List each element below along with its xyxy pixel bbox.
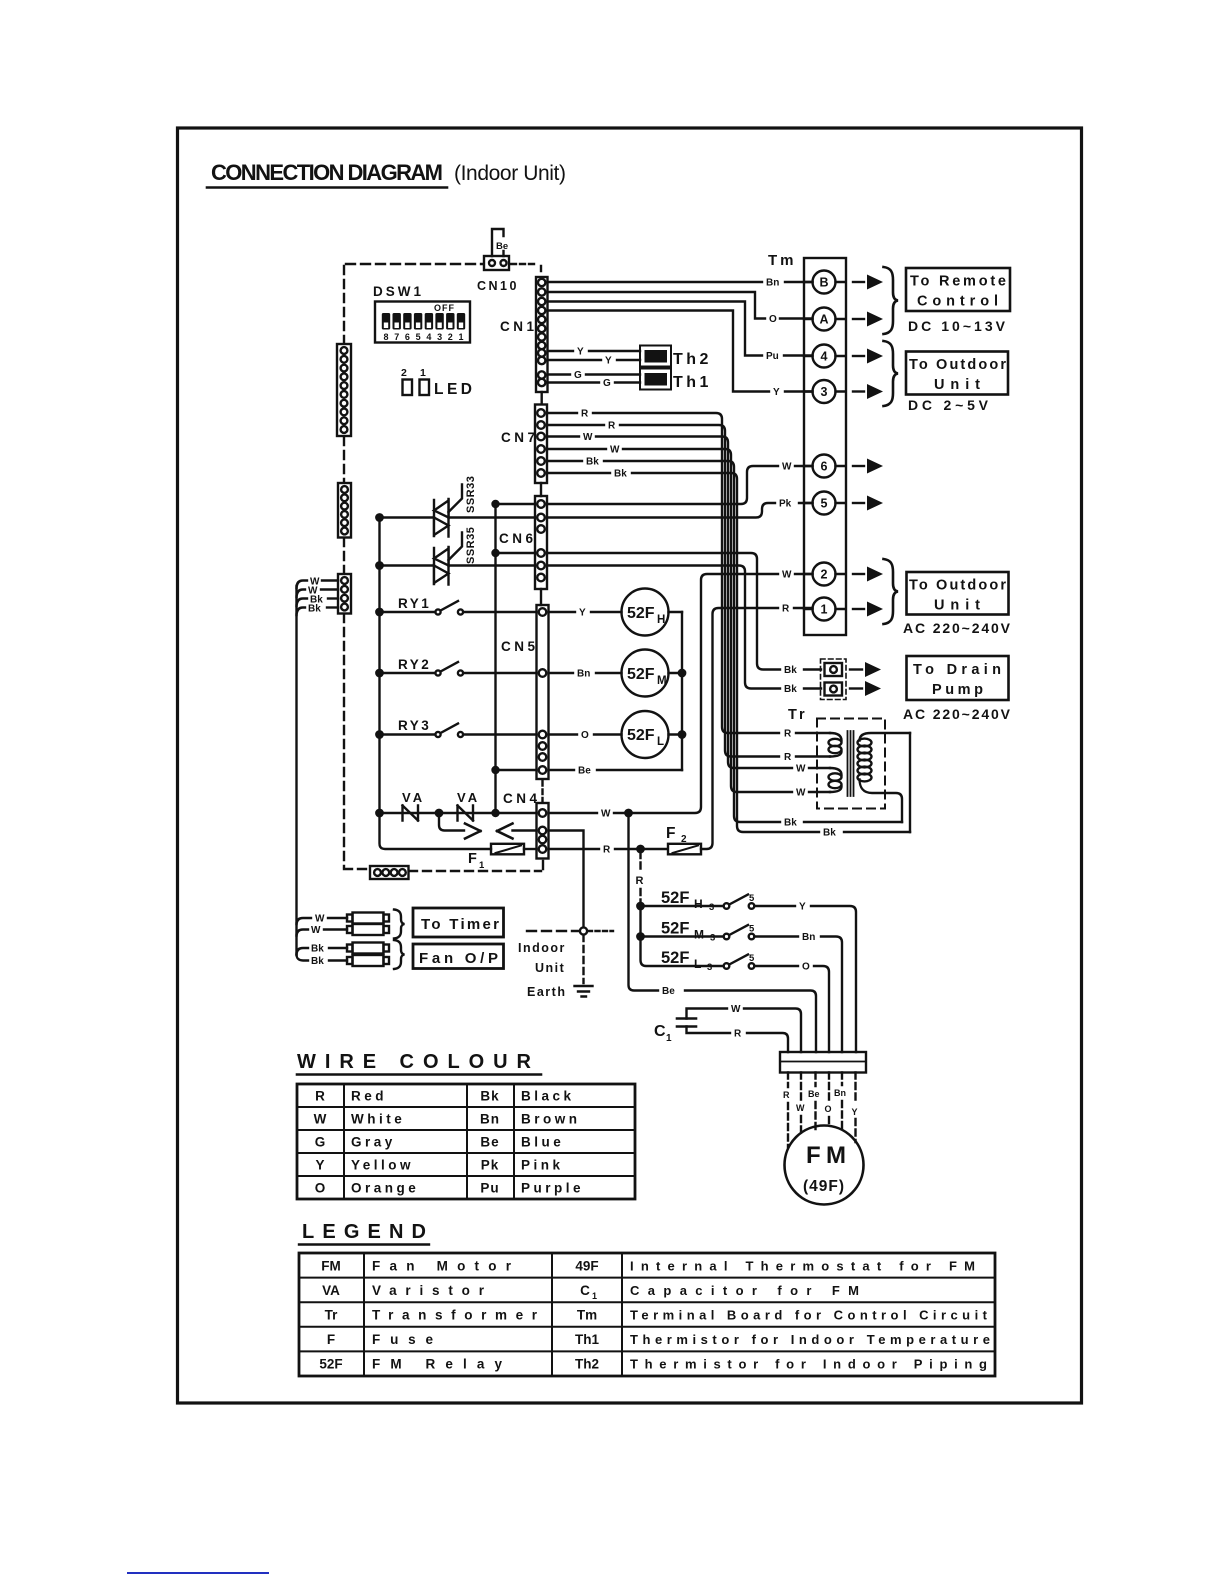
connector left 4pin: [338, 574, 351, 614]
svg-text:CN10: CN10: [477, 279, 519, 293]
motor lead Bn: [841, 1073, 843, 1131]
connector bottom 4pin horizontal: [370, 866, 409, 879]
svg-text:52F: 52F: [627, 605, 655, 622]
wire harness W to left 4pin: [297, 577, 339, 589]
svg-text:To Timer: To Timer: [421, 916, 499, 933]
svg-text:W: W: [782, 570, 792, 581]
varistor VA 2: [457, 790, 480, 821]
svg-text:O: O: [769, 314, 777, 325]
wire CN4 to earth: [549, 831, 584, 928]
wire harness W2 to left 4pin: [297, 586, 339, 598]
svg-text:52F: 52F: [661, 949, 689, 967]
svg-text:M: M: [657, 675, 667, 687]
svg-text:R: R: [783, 1090, 790, 1100]
svg-text:Tm: Tm: [577, 1308, 597, 1323]
svg-text:Y: Y: [579, 608, 586, 619]
svg-text:Fuse: Fuse: [372, 1332, 433, 1347]
triac SSR35: [380, 527, 478, 585]
svg-text:Bk: Bk: [311, 944, 324, 955]
wire Y to Th2: [548, 347, 641, 358]
brace timer pair: [394, 910, 405, 939]
svg-text:8: 8: [383, 332, 388, 342]
wire Bn CN1 to Tm B: [548, 278, 813, 289]
svg-text:F: F: [666, 825, 675, 842]
WIRE COLOUR title: [297, 1051, 541, 1075]
harness vertical bus: [295, 586, 297, 955]
wire Bk CN7 to transformer secondary bottom: [547, 457, 902, 829]
thermistor Th2: [640, 346, 712, 369]
svg-text:R: R: [784, 729, 792, 740]
arrows to external: [853, 275, 883, 290]
svg-text:Th1: Th1: [673, 374, 712, 391]
motor lead Y: [854, 1073, 856, 1143]
svg-text:OFF: OFF: [434, 303, 455, 313]
wire O CN1 to Tm A: [548, 292, 813, 325]
wire G to Th1: [548, 370, 641, 381]
relay contact RY2: [380, 657, 537, 676]
label box To Drain Pump: [907, 656, 1009, 700]
svg-text:2: 2: [821, 567, 828, 581]
svg-text:Thermistor for Indoor Piping: Thermistor for Indoor Piping: [630, 1357, 987, 1372]
svg-text:Bk: Bk: [311, 956, 324, 967]
PCB dashed outline top: [346, 263, 483, 265]
svg-text:Tr: Tr: [325, 1308, 339, 1323]
connector CN10: [477, 256, 519, 293]
svg-text:AC 220~240V: AC 220~240V: [903, 706, 1011, 722]
svg-text:To Outdoor: To Outdoor: [909, 357, 1006, 373]
svg-text:W: W: [731, 1004, 741, 1015]
ground symbol: [575, 986, 593, 997]
connector CN6: [499, 496, 547, 605]
Tr primary coil 2: [829, 768, 842, 792]
svg-text:Black: Black: [521, 1089, 575, 1104]
svg-text:Pink: Pink: [521, 1158, 564, 1173]
svg-text:Transformer: Transformer: [372, 1308, 538, 1323]
svg-text:Bk: Bk: [784, 684, 797, 695]
wire Pu CN1 to Tm 4: [548, 302, 813, 363]
fan motor FM (49F): [785, 1126, 864, 1205]
svg-text:7: 7: [394, 332, 399, 342]
wire W down to Be: [629, 813, 817, 1052]
wire Bk2 CN6 to drain pump 2: [449, 566, 822, 696]
wire 52F right bus: [681, 612, 683, 770]
svg-text:WIRE COLOUR: WIRE COLOUR: [297, 1051, 532, 1073]
svg-text:W: W: [583, 432, 593, 443]
svg-text:5: 5: [821, 496, 828, 510]
svg-text:DC 2~5V: DC 2~5V: [908, 397, 989, 413]
svg-text:1: 1: [420, 367, 426, 379]
svg-text:4: 4: [426, 332, 431, 342]
relay coil 52FM: [622, 650, 686, 697]
wire harness Bk to left 4pin: [297, 595, 339, 607]
svg-text:Be: Be: [480, 1135, 499, 1150]
capacitor C1: [654, 1004, 801, 1052]
wire R2 CN7 to transformer primary: [547, 421, 830, 764]
svg-text:Internal Thermostat for FM: Internal Thermostat for FM: [630, 1258, 975, 1273]
svg-text:L: L: [657, 736, 664, 748]
triac SSR33: [380, 476, 536, 537]
svg-text:3: 3: [821, 385, 828, 399]
varistor VA 1: [402, 790, 425, 821]
svg-text:Y: Y: [852, 1107, 858, 1117]
svg-text:G: G: [574, 370, 582, 381]
svg-text:Control: Control: [917, 294, 998, 310]
timer plug W: [297, 913, 390, 925]
svg-text:L: L: [694, 957, 701, 971]
svg-text:Th2: Th2: [673, 351, 712, 368]
motor lead R: [787, 1073, 789, 1148]
svg-text:Bn: Bn: [766, 278, 779, 289]
relay coil 52FH: [622, 589, 683, 636]
fan plug Bk: [297, 943, 390, 955]
svg-text:DSW1: DSW1: [373, 284, 424, 299]
wire Y2 to Th2: [548, 356, 641, 367]
fan plug Bk2: [297, 955, 390, 967]
svg-text:49F: 49F: [575, 1258, 598, 1273]
svg-text:2: 2: [401, 367, 407, 379]
svg-text:C: C: [580, 1283, 590, 1298]
svg-text:Bn: Bn: [802, 932, 815, 943]
svg-text:Bk: Bk: [480, 1089, 499, 1104]
connector left 10pin: [337, 344, 351, 436]
wire Bk2 CN7 to transformer secondary top: [547, 469, 910, 839]
wire F2 to Tm 1: [701, 604, 813, 850]
svg-text:H: H: [694, 897, 703, 911]
svg-text:W: W: [314, 1112, 327, 1127]
svg-text:Red: Red: [351, 1089, 387, 1104]
svg-text:2: 2: [681, 834, 687, 845]
svg-text:Be: Be: [662, 986, 675, 997]
wire R CN4 to F2: [549, 845, 668, 856]
svg-text:52F: 52F: [661, 889, 689, 907]
brace remote control pair: [884, 267, 899, 334]
svg-text:Gray: Gray: [351, 1135, 396, 1150]
svg-text:CN1: CN1: [500, 319, 538, 334]
svg-text:To Drain: To Drain: [913, 662, 1001, 678]
svg-text:5: 5: [416, 332, 421, 342]
svg-text:Purple: Purple: [521, 1181, 584, 1196]
svg-text:R: R: [603, 845, 611, 856]
svg-text:Pk: Pk: [481, 1158, 500, 1173]
svg-text:R: R: [315, 1089, 325, 1104]
svg-text:Orange: Orange: [351, 1181, 419, 1196]
thermistor Th1: [640, 369, 712, 392]
motor lead O: [828, 1073, 830, 1127]
LED indicators: [401, 367, 472, 398]
svg-text:VA: VA: [402, 790, 425, 805]
brace outdoor AC pair: [884, 559, 899, 624]
svg-text:Th2: Th2: [575, 1357, 599, 1372]
wire Be CN5: [496, 766, 683, 777]
svg-text:1: 1: [666, 1033, 672, 1044]
brace outdoor DC pair: [884, 341, 899, 406]
svg-text:H: H: [657, 614, 665, 626]
svg-text:Varistor: Varistor: [372, 1283, 485, 1298]
svg-text:3: 3: [437, 332, 442, 342]
svg-text:RY3: RY3: [398, 718, 431, 733]
relay coil 52FL: [622, 711, 686, 758]
svg-text:Tr: Tr: [788, 707, 808, 723]
svg-text:W: W: [315, 914, 325, 925]
svg-text:R: R: [636, 875, 644, 887]
svg-text:1: 1: [458, 332, 463, 342]
svg-text:O: O: [581, 730, 589, 741]
svg-text:B: B: [819, 275, 828, 289]
svg-text:Be: Be: [808, 1089, 820, 1099]
svg-text:1: 1: [479, 860, 485, 871]
svg-text:52F: 52F: [661, 920, 689, 938]
svg-text:R: R: [782, 604, 790, 615]
svg-text:C: C: [654, 1023, 666, 1040]
label box To Remote Control: [906, 268, 1010, 311]
LEGEND title: [299, 1221, 429, 1245]
svg-text:Fan O/P: Fan O/P: [419, 950, 498, 967]
timer plug W2: [297, 924, 390, 936]
svg-text:White: White: [351, 1112, 405, 1127]
svg-text:To Outdoor: To Outdoor: [909, 578, 1006, 594]
PCB dashed outline bottom: [344, 860, 543, 871]
svg-text:R: R: [581, 409, 589, 420]
svg-text:6: 6: [405, 332, 410, 342]
svg-text:G: G: [603, 378, 611, 389]
wire O CN5 to 52FL: [549, 730, 622, 741]
svg-text:FM Relay: FM Relay: [372, 1357, 502, 1372]
svg-text:W: W: [796, 788, 806, 799]
drain arrows: [850, 662, 881, 696]
Be jumper on CN10: [492, 229, 508, 256]
switch 52FM3: [637, 906, 842, 1052]
svg-text:Blue: Blue: [521, 1135, 564, 1150]
svg-text:Y: Y: [605, 356, 612, 367]
svg-text:Pump: Pump: [932, 682, 983, 698]
wire W CN6 to Tm 6: [493, 462, 813, 508]
svg-text:W: W: [610, 445, 620, 456]
svg-text:Y: Y: [773, 387, 780, 398]
svg-text:Bk: Bk: [308, 604, 321, 615]
PCB dashed outline left: [343, 266, 345, 867]
svg-text:M: M: [694, 928, 704, 942]
svg-text:2: 2: [448, 332, 453, 342]
label box To Outdoor Unit: [906, 352, 1008, 395]
node left vertical bus: [376, 514, 491, 849]
motor lead Be: [814, 1073, 816, 1131]
terminal board Tm: [768, 252, 846, 635]
svg-text:AC 220~240V: AC 220~240V: [903, 620, 1011, 636]
svg-text:Y: Y: [799, 902, 806, 913]
svg-text:CN5: CN5: [501, 639, 539, 654]
switch 52FL3: [641, 937, 830, 1053]
svg-text:Be: Be: [578, 766, 591, 777]
border frame: [178, 128, 1082, 1403]
wire VA row to CN4: [380, 810, 537, 816]
transformer Tr: [788, 707, 885, 809]
Tr core: [848, 731, 854, 796]
svg-text:Capacitor for FM: Capacitor for FM: [630, 1283, 859, 1298]
svg-text:CN4: CN4: [503, 791, 541, 806]
svg-text:F: F: [327, 1332, 335, 1347]
connector CN5: [501, 605, 549, 779]
svg-text:W: W: [796, 1103, 805, 1113]
svg-text:DC 10~13V: DC 10~13V: [908, 318, 1006, 334]
svg-text:W: W: [601, 809, 611, 820]
svg-text:W: W: [782, 462, 792, 473]
svg-text:1: 1: [821, 602, 828, 616]
connector left 6pin: [338, 483, 351, 538]
svg-text:SSR35: SSR35: [465, 527, 477, 564]
label box To Outdoor Unit AC: [907, 572, 1009, 615]
legend table: [299, 1253, 995, 1376]
svg-text:Yellow: Yellow: [351, 1158, 414, 1173]
svg-text:Bk: Bk: [614, 469, 627, 480]
svg-text:Y: Y: [315, 1158, 324, 1173]
svg-text:FM: FM: [321, 1258, 341, 1273]
svg-text:Bn: Bn: [480, 1112, 500, 1127]
svg-text:To Remote: To Remote: [910, 274, 1006, 290]
connector CN1: [500, 277, 548, 404]
indoor unit earth: [518, 927, 613, 999]
wire Bn CN5 to 52FM: [549, 669, 622, 680]
svg-text:R: R: [608, 421, 616, 432]
svg-text:CN7: CN7: [501, 430, 539, 445]
svg-text:Bk: Bk: [823, 828, 836, 839]
relay contact RY1: [380, 596, 537, 615]
svg-text:52F: 52F: [627, 727, 655, 744]
wire R dashed down: [636, 852, 644, 909]
svg-text:Earth: Earth: [527, 985, 566, 999]
wire W2 CN7 to transformer primary2 bottom: [547, 445, 830, 799]
relay contact RY3: [380, 718, 537, 737]
Tr secondary coil: [858, 733, 911, 822]
label box Fan O/P: [413, 944, 504, 969]
svg-text:Y: Y: [577, 347, 584, 358]
svg-text:Be: Be: [496, 241, 508, 252]
svg-text:Fan Motor: Fan Motor: [372, 1258, 512, 1273]
svg-text:LED: LED: [434, 381, 472, 398]
svg-text:Bk: Bk: [586, 457, 599, 468]
svg-text:Thermistor for Indoor Temperat: Thermistor for Indoor Temperature: [630, 1332, 990, 1347]
svg-text:Terminal Board for Control Cir: Terminal Board for Control Circuit: [630, 1308, 988, 1323]
svg-text:Tm: Tm: [768, 252, 797, 269]
title CONNECTION DIAGRAM: [211, 160, 566, 185]
Tm terminals B A 4 3 6 5 2 1: [804, 271, 845, 294]
svg-text:Bk: Bk: [784, 818, 797, 829]
svg-text:Bk: Bk: [784, 665, 797, 676]
wire G2 to Th1: [548, 378, 641, 389]
svg-text:RY1: RY1: [398, 596, 431, 611]
Tr secondary top lead: [909, 733, 911, 832]
svg-text:CONNECTION DIAGRAM: CONNECTION DIAGRAM: [211, 160, 443, 185]
svg-text:3: 3: [707, 962, 712, 973]
fan motor terminal strip: [780, 1052, 866, 1073]
blue reference line: [127, 1572, 269, 1574]
svg-text:3: 3: [710, 933, 715, 944]
svg-text:Unit: Unit: [934, 377, 980, 393]
svg-text:Bn: Bn: [834, 1088, 846, 1098]
svg-text:O: O: [315, 1181, 326, 1196]
svg-text:VA: VA: [457, 790, 480, 805]
DIP switch DSW1: [373, 284, 470, 343]
wire harness Bk2 to left 4pin: [297, 604, 339, 616]
svg-text:4: 4: [821, 349, 828, 363]
svg-text:W: W: [796, 764, 806, 775]
DSW1 switch levers and numbers: [382, 313, 465, 342]
svg-text:FM: FM: [806, 1142, 846, 1169]
fuse F1: [468, 844, 537, 871]
svg-text:Pu: Pu: [766, 351, 779, 362]
svg-text:SSR33: SSR33: [465, 476, 477, 513]
svg-text:52F: 52F: [627, 666, 655, 683]
wire R CN7 to transformer primary top: [547, 409, 830, 740]
svg-text:Th1: Th1: [575, 1332, 599, 1347]
svg-text:3: 3: [709, 902, 714, 913]
svg-text:LEGEND: LEGEND: [302, 1221, 426, 1243]
svg-text:F: F: [468, 851, 477, 867]
label box To Timer: [413, 908, 504, 937]
connector CN4: [503, 781, 549, 859]
svg-text:Bn: Bn: [577, 669, 590, 680]
Tr primary coil 1: [829, 733, 842, 757]
wire Pk CN6 to Tm 5: [547, 499, 813, 518]
svg-text:R: R: [784, 752, 792, 763]
svg-text:52F: 52F: [319, 1357, 342, 1372]
svg-text:O: O: [825, 1104, 832, 1114]
svg-text:Brown: Brown: [521, 1112, 581, 1127]
wire Y CN1 to Tm 3: [548, 311, 813, 399]
svg-text:6: 6: [821, 459, 828, 473]
svg-text:R: R: [734, 1029, 742, 1040]
svg-text:Pk: Pk: [779, 499, 792, 510]
svg-text:(49F): (49F): [803, 1178, 845, 1195]
svg-text:Unit: Unit: [934, 598, 980, 614]
svg-text:G: G: [315, 1135, 326, 1150]
wire W CN4 to Tm 2: [549, 570, 813, 820]
wire Bk CN6 to drain pump 1: [493, 550, 822, 676]
svg-text:A: A: [819, 312, 828, 326]
wire colour table: [297, 1084, 635, 1199]
svg-text:Indoor: Indoor: [518, 941, 566, 955]
motor lead W: [800, 1073, 802, 1134]
wire W CN7 to transformer primary2 top: [547, 432, 830, 775]
drain pump connector: [821, 659, 847, 700]
connector CN7: [501, 405, 547, 497]
svg-text:Pu: Pu: [480, 1181, 499, 1196]
switch 52FH3: [641, 889, 857, 1052]
svg-text:CN6: CN6: [499, 531, 537, 546]
wire Y CN5 to 52FH: [549, 608, 622, 619]
svg-text:Unit: Unit: [535, 961, 565, 975]
svg-text:(Indoor Unit): (Indoor Unit): [454, 162, 566, 185]
svg-text:W: W: [311, 925, 321, 936]
fuse F2: [666, 825, 701, 854]
svg-text:1: 1: [592, 1291, 597, 1301]
svg-text:RY2: RY2: [398, 657, 431, 672]
brace fan pair: [394, 940, 405, 969]
svg-text:VA: VA: [322, 1283, 340, 1298]
svg-text:O: O: [802, 962, 810, 973]
wire to mating arrows: [439, 813, 537, 839]
node vertical bus x495: [493, 504, 499, 816]
